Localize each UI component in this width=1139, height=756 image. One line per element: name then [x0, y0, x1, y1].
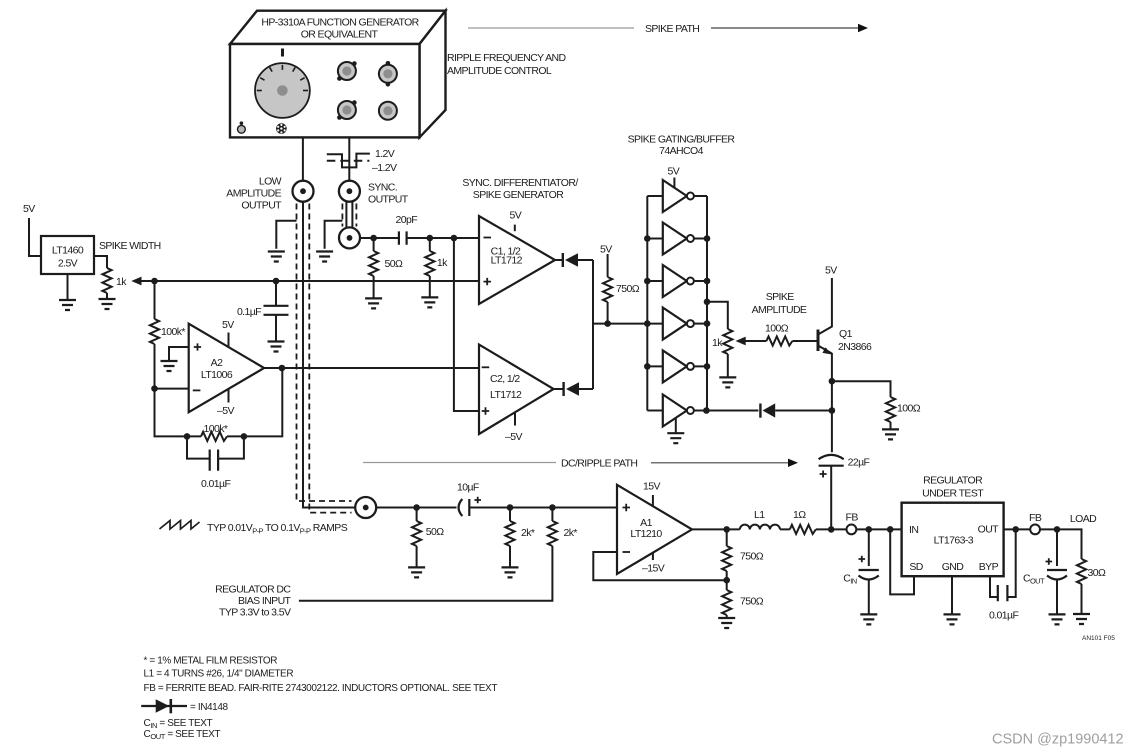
svg-text:REGULATOR: REGULATOR — [923, 475, 983, 487]
svg-text:5V: 5V — [600, 244, 612, 256]
svg-text:AMPLITUDE: AMPLITUDE — [226, 188, 281, 200]
svg-text:750Ω: 750Ω — [616, 283, 640, 295]
svg-text:5V: 5V — [23, 203, 35, 215]
svg-text:OR EQUIVALENT: OR EQUIVALENT — [301, 29, 379, 41]
svg-text:BYP: BYP — [979, 561, 999, 573]
svg-text:1k: 1k — [712, 337, 723, 349]
svg-text:–1.2V: –1.2V — [372, 162, 397, 174]
svg-text:20pF: 20pF — [396, 214, 418, 226]
svg-text:REGULATOR DC: REGULATOR DC — [215, 584, 291, 596]
svg-text:BIAS INPUT: BIAS INPUT — [238, 595, 292, 607]
svg-text:750Ω: 750Ω — [740, 551, 764, 563]
svg-text:C2, 1/2: C2, 1/2 — [490, 373, 520, 385]
svg-text:GND: GND — [942, 561, 965, 573]
svg-text:RIPPLE FREQUENCY AND: RIPPLE FREQUENCY AND — [447, 52, 567, 64]
svg-text:IN: IN — [909, 524, 918, 536]
svg-text:FB: FB — [1029, 512, 1042, 524]
svg-text:OUTPUT: OUTPUT — [241, 200, 282, 212]
svg-text:FB: FB — [846, 512, 859, 524]
svg-text:2k*: 2k* — [564, 527, 578, 539]
svg-text:LT1712: LT1712 — [490, 389, 522, 401]
svg-text:SYNC. DIFFERENTIATOR/: SYNC. DIFFERENTIATOR/ — [462, 177, 578, 189]
svg-text:1Ω: 1Ω — [793, 509, 806, 521]
svg-text:1k: 1k — [437, 257, 448, 269]
svg-text:TYP 3.3V to 3.5V: TYP 3.3V to 3.5V — [219, 607, 291, 619]
svg-text:100Ω: 100Ω — [765, 323, 789, 335]
svg-text:SPIKE: SPIKE — [766, 291, 795, 303]
svg-text:AN101 F05: AN101 F05 — [1082, 635, 1115, 642]
svg-text:1k: 1k — [116, 276, 127, 288]
svg-text:A2: A2 — [211, 357, 223, 369]
svg-text:DC/RIPPLE PATH: DC/RIPPLE PATH — [561, 458, 637, 470]
svg-text:–5V: –5V — [217, 405, 234, 417]
svg-text:5V: 5V — [825, 265, 837, 277]
svg-text:2k*: 2k* — [521, 527, 535, 539]
svg-text:UNDER TEST: UNDER TEST — [922, 488, 984, 500]
svg-text:50Ω: 50Ω — [426, 526, 444, 538]
svg-text:= IN4148: = IN4148 — [190, 702, 229, 713]
svg-text:LOAD: LOAD — [1070, 513, 1097, 525]
svg-text:OUT: OUT — [978, 524, 1000, 536]
svg-text:1.2V: 1.2V — [375, 148, 395, 160]
svg-text:5V: 5V — [222, 319, 234, 331]
svg-text:10µF: 10µF — [457, 482, 479, 494]
svg-text:LT1006: LT1006 — [201, 369, 233, 381]
svg-text:–5V: –5V — [505, 431, 522, 443]
svg-text:100k*: 100k* — [204, 423, 228, 435]
svg-text:SPIKE PATH: SPIKE PATH — [645, 23, 699, 35]
svg-text:22µF: 22µF — [848, 457, 870, 469]
svg-text:LT1210: LT1210 — [630, 528, 662, 540]
svg-text:2N3866: 2N3866 — [838, 341, 872, 353]
svg-text:SPIKE GENERATOR: SPIKE GENERATOR — [473, 189, 564, 201]
svg-text:TYP 0.01VP-P TO 0.1VP-P RAMPS: TYP 0.01VP-P TO 0.1VP-P RAMPS — [207, 522, 348, 536]
svg-text:SD: SD — [909, 561, 923, 573]
svg-text:–15V: –15V — [642, 563, 665, 575]
svg-text:SPIKE GATING/BUFFER: SPIKE GATING/BUFFER — [628, 134, 736, 146]
svg-text:74AHCO4: 74AHCO4 — [659, 145, 703, 157]
svg-text:2.5V: 2.5V — [58, 258, 78, 270]
svg-text:CSDN @zp1990412: CSDN @zp1990412 — [992, 732, 1124, 748]
svg-text:0.01µF: 0.01µF — [989, 610, 1018, 622]
svg-text:50Ω: 50Ω — [385, 258, 403, 270]
svg-text:OUTPUT: OUTPUT — [368, 194, 409, 206]
svg-text:L1 = 4 TURNS #26, 1/4" DIAMETE: L1 = 4 TURNS #26, 1/4" DIAMETER — [144, 669, 294, 680]
svg-text:100k*: 100k* — [161, 326, 185, 338]
svg-text:HP-3310A FUNCTION GENERATOR: HP-3310A FUNCTION GENERATOR — [261, 17, 419, 29]
svg-text:100Ω: 100Ω — [897, 403, 921, 415]
svg-text:5V: 5V — [510, 210, 522, 222]
svg-text:Q1: Q1 — [839, 328, 853, 340]
svg-text:LOW: LOW — [259, 176, 282, 188]
svg-text:* = 1% METAL FILM RESISTOR: * = 1% METAL FILM RESISTOR — [144, 656, 278, 667]
svg-text:AMPLITUDE CONTROL: AMPLITUDE CONTROL — [447, 65, 552, 77]
svg-text:AMPLITUDE: AMPLITUDE — [752, 304, 807, 316]
svg-text:L1: L1 — [754, 509, 765, 521]
svg-text:750Ω: 750Ω — [740, 596, 764, 608]
svg-text:LT1763-3: LT1763-3 — [934, 535, 974, 547]
svg-text:0.01µF: 0.01µF — [201, 478, 230, 490]
svg-text:SYNC.: SYNC. — [368, 182, 397, 194]
svg-text:0.1µF: 0.1µF — [237, 306, 261, 318]
svg-text:LT1460: LT1460 — [52, 245, 84, 257]
svg-text:30Ω: 30Ω — [1088, 567, 1106, 579]
svg-text:15V: 15V — [643, 481, 660, 493]
svg-text:SPIKE WIDTH: SPIKE WIDTH — [99, 240, 161, 252]
svg-text:LT1712: LT1712 — [491, 255, 523, 267]
svg-text:FB = FERRITE BEAD. FAIR-RITE 2: FB = FERRITE BEAD. FAIR-RITE 2743002122.… — [144, 683, 498, 694]
svg-text:5V: 5V — [668, 166, 680, 178]
